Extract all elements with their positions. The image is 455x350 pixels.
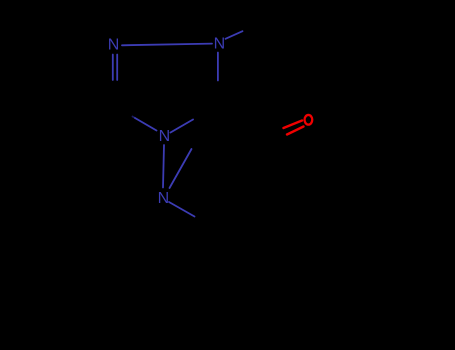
svg-text:N: N: [159, 128, 171, 145]
svg-text:N: N: [214, 36, 226, 53]
svg-text:N: N: [158, 190, 170, 207]
svg-text:N: N: [108, 37, 120, 54]
